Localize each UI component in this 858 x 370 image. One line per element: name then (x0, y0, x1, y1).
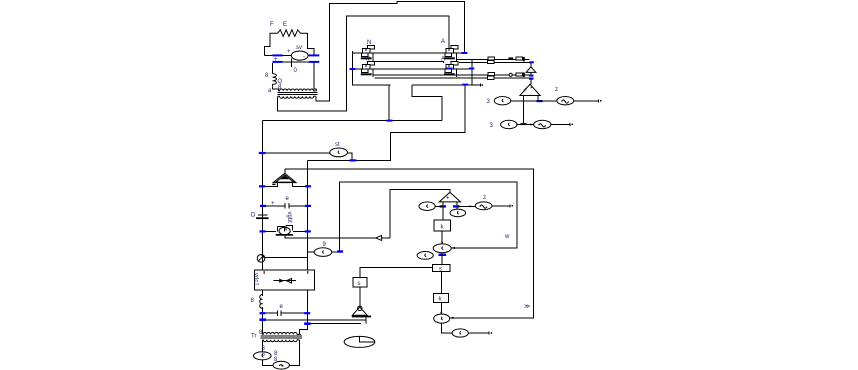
mark inside D (442, 247, 443, 250)
fuse F2a on line2a (488, 73, 495, 76)
VS1 bottom terminal bar (290, 59, 293, 67)
wire sensor up to box S (359, 287, 361, 307)
tick mark in RB1 right (307, 271, 308, 274)
gain box K1 (434, 220, 450, 231)
fuse F1b on line1b (488, 60, 495, 63)
AC source S1 (row1, sine) (557, 97, 574, 105)
inductor L1 (273, 74, 277, 87)
end pin dot (482, 84, 484, 86)
wire bus L6 left (352, 84, 390, 86)
blue node PH right (337, 250, 343, 252)
arrow into D right (452, 247, 455, 250)
wire bus L3 (lower through line) (350, 68, 472, 70)
fuse F1a on line1a (488, 57, 495, 60)
meter ellipse M2 (bottom) (273, 361, 289, 369)
wire T1 secondary left end down (278, 16, 449, 111)
wire sensor base taps (365, 317, 367, 323)
svg-text:E: E (283, 22, 287, 28)
rail B (right vertical) (307, 160, 309, 270)
polarity bar on line1a (508, 57, 513, 59)
arrow inside CB (259, 255, 264, 260)
MOSFET Q2 (bottom-left) (360, 62, 377, 78)
AC source S2 (row2, sine) (534, 120, 551, 128)
arrow mark row2 (531, 123, 534, 125)
arrow mark before C (470, 205, 473, 207)
transformer T1 secondary winding (278, 96, 316, 98)
svg-text:+: + (524, 88, 528, 94)
C2 bottom plate (256, 217, 269, 219)
probe ellipse E (417, 252, 433, 260)
wire row1 to pin (574, 99, 599, 102)
blue node L3 left (350, 68, 356, 70)
transformer T3 secondary (263, 340, 300, 342)
wire source row2 (273, 61, 315, 63)
sine mark inside S1 (562, 100, 569, 103)
SCR T2 (wide triangle) (273, 173, 296, 182)
SECTION: top-left source loop (265, 22, 320, 98)
T4 left leg (442, 202, 444, 220)
blue node left leg row2 (521, 123, 527, 125)
MOSFET Q1 (top-left) (360, 46, 377, 62)
open triangle and bar inside RB1 (286, 278, 291, 283)
fuse F2b on line2b (488, 76, 495, 79)
wire long horizontal y120.6 (263, 120, 442, 122)
svg-text:sv: sv (296, 45, 302, 51)
blue wire row1 left (273, 54, 283, 56)
inner outline of T2 (276, 175, 294, 182)
wire C to end pin (492, 204, 510, 207)
blue wire row1 right (309, 54, 320, 56)
comparator triangle T4 (439, 192, 460, 202)
minus mark left of T2 (272, 184, 275, 185)
mark inside F (441, 317, 442, 320)
sensor triangle T0 (526, 67, 536, 73)
blue node L3 right (469, 68, 475, 70)
wire inductor to transformer primary (273, 87, 279, 89)
SECTION: output filter (374, 57, 536, 80)
wire H2 inner loop (node PH to ellipse D) (340, 182, 517, 252)
wire T0 bottom (530, 72, 532, 74)
svg-text:Tr: Tr (251, 334, 256, 340)
AC reference source C (sine) (475, 202, 492, 210)
mark inside PH (323, 250, 324, 253)
T2 apex wire up (284, 169, 286, 173)
svg-text:A: A (441, 39, 445, 45)
SECTION: feedback wires (285, 169, 534, 318)
probe ellipse A (419, 202, 435, 211)
wire PI1 to PI2 (440, 272, 442, 294)
capacitor C3 (263, 310, 308, 316)
svg-text:vdc1: vdc1 (253, 273, 259, 286)
svg-text:D: D (251, 213, 256, 219)
polarized capacitor C2 on rail A (258, 214, 268, 216)
diode symbol inside RB1 (274, 280, 296, 282)
blue wire C1 right (305, 205, 311, 207)
blue wire rail B y186 (305, 185, 311, 187)
wire T1 secondary right end down (316, 2, 465, 101)
wire CS1 left to rail A (263, 152, 330, 154)
switch S3 (mosfet-like blob) (263, 225, 308, 235)
junction blue y120.6 (387, 120, 393, 122)
wire K1 to sum D (441, 231, 443, 244)
solid arrow inside RB1 (279, 279, 284, 283)
plus mark in RB1 (264, 271, 265, 274)
rail A (left vertical) (262, 121, 264, 270)
svg-text:N: N (366, 57, 370, 63)
sum ellipse F (434, 314, 450, 323)
SECTION: control chain (417, 192, 513, 337)
box S (sensor gain) (353, 278, 367, 288)
blue wire row2 right (309, 61, 320, 63)
wire CS1 right down to H0 (347, 153, 351, 161)
inductor Lf1 on line1a (516, 57, 523, 60)
rail A lower part (262, 290, 264, 334)
blue wire row2 left (273, 61, 283, 63)
wire left rail to inductor (272, 63, 274, 74)
wire source row1 (265, 54, 315, 56)
T4 right leg (456, 202, 458, 210)
wire bus L2 (374, 62, 443, 64)
blue wire rail A y186 (259, 185, 265, 187)
blue wire C3 right (304, 312, 310, 314)
blue node right leg (537, 100, 543, 102)
inductor Lf2 on line2a (516, 73, 523, 76)
dot mark inside T1 (531, 87, 533, 88)
rail B lower part (300, 290, 308, 334)
probe ellipse P2 (row2 left) (501, 120, 517, 128)
svg-text:+: + (287, 49, 291, 55)
blue node T4 left (440, 205, 447, 207)
wire arrow to x390 (382, 237, 390, 239)
wire T0 top (530, 62, 532, 67)
wire output line 1a (y59) (457, 58, 530, 60)
scope ellipse SC1 (344, 336, 375, 347)
svg-text:s: s (358, 281, 361, 287)
wire row2 (517, 124, 534, 126)
rectifier box RB1 (254, 270, 314, 290)
mark inside M1 (262, 354, 263, 357)
wire right vertical x471.8 (471, 59, 473, 85)
transformer T1 primary winding (279, 89, 317, 91)
blue node L1 right (462, 52, 468, 54)
transformer T3 primary (262, 332, 301, 334)
blue node T4 right (453, 205, 460, 207)
wire PI2 to sum F (440, 303, 442, 315)
svg-text:N: N (367, 40, 371, 46)
wire T4 node to ellipse C (457, 205, 475, 207)
transformer T1 core bars (278, 93, 318, 95)
wire CB to rail B (265, 257, 308, 259)
wire row1 (511, 100, 557, 102)
wire bus L6 right with end pin (412, 84, 481, 87)
blue node L3 mid (447, 68, 453, 70)
wire source right rail down to transformer (314, 62, 316, 89)
svg-text:vgbt: vgbt (286, 212, 292, 224)
T2 left foot (263, 183, 278, 187)
wire H3 (gate line to comparator apex) (390, 189, 450, 238)
end pin dot C (512, 205, 514, 207)
probe ellipse PH (314, 248, 332, 257)
wire zigzag DC- to feedback rail (412, 85, 442, 121)
blue node line1 (529, 61, 534, 63)
arrow into D (441, 242, 443, 245)
blue node line2a (529, 75, 534, 77)
svg-text:F: F (270, 22, 274, 28)
blue node line2b (529, 78, 534, 80)
wire DC- to rail B (via x464.8) (308, 85, 465, 160)
SECTION: left chain (251, 121, 433, 370)
gate arrow (open triangle) (376, 235, 382, 240)
wire G to end pin (468, 332, 489, 335)
svg-text:z: z (483, 195, 486, 201)
probe ellipse B (450, 209, 466, 217)
capacitor C1 (263, 203, 308, 209)
wire bus L1 (top through line) (352, 52, 464, 54)
AC source VS1 (291, 51, 308, 60)
wire PH right to node (332, 251, 340, 253)
wire output line 2a (y74.6) (374, 74, 530, 76)
wire tap A to sensor (y319.8) (263, 319, 366, 321)
mark inside E (425, 254, 426, 257)
arrow into F right (450, 317, 453, 320)
svg-text:+: + (274, 57, 278, 63)
row2 end pin dot (572, 124, 574, 126)
probe ellipse P1 (row1 left) (494, 97, 510, 105)
SECTION: transformer hooks (278, 2, 465, 111)
svg-text:st: st (335, 142, 340, 148)
blue wire C3 left (260, 312, 266, 314)
small circle on line2a (509, 73, 512, 76)
wire T1 right leg (537, 96, 539, 102)
blue wire y319.8 (260, 318, 266, 321)
PI box PI1 (433, 265, 450, 272)
mark inside M2 (279, 365, 283, 367)
end pin dot G (491, 332, 493, 334)
wire A to T4 leg (435, 205, 443, 207)
svg-text:≫: ≫ (524, 304, 530, 310)
blue wire y323.7 (304, 322, 310, 325)
op-amp triangle T1 (520, 84, 540, 95)
mark inside G (460, 331, 461, 334)
mark inside P1 (502, 99, 503, 102)
wire D to PI1 (441, 253, 443, 265)
current probe circle CB (257, 254, 265, 262)
blue wire S3 right (305, 230, 311, 232)
blue wire C1 left (260, 205, 266, 207)
wire S3 gate down to arrow line (285, 236, 375, 238)
secondary loop left (263, 340, 300, 366)
inductor L2 on rail A (260, 295, 263, 309)
svg-text:A: A (441, 57, 445, 63)
probe ellipse G (452, 329, 468, 337)
MOSFET Q3 (top-right) (443, 46, 460, 62)
PI box PI2 (434, 293, 449, 302)
current sensor ellipse CS1 (330, 148, 348, 157)
svg-text:w: w (504, 234, 510, 240)
T2 right foot (293, 183, 308, 187)
arrow into F (440, 312, 442, 315)
mark inside B (457, 211, 458, 214)
wire R1 left leg (265, 33, 270, 55)
wire bridge left rail (352, 51, 389, 121)
sum ellipse D (433, 244, 451, 253)
blue node below D (439, 254, 447, 256)
wire output line 1b (y62.2) (459, 61, 534, 63)
MOSFET Q4 (bottom-right) (443, 62, 460, 78)
wire H0 (308, 159, 391, 161)
wire PH left to rail B (308, 251, 315, 253)
SECTION: right sensors (487, 78, 602, 129)
svg-text:+: + (271, 201, 275, 207)
wire F down to G (442, 323, 452, 333)
transformer T3 core bars (261, 336, 303, 338)
wire H1 outer loop (SCR apex to ellipse F) (285, 169, 534, 318)
wire box S up and right to PI1 (360, 267, 433, 277)
blue wire S3 left (260, 230, 266, 232)
svg-text:-: - (303, 54, 305, 60)
wire T1 left leg (522, 96, 524, 124)
blue node H0 (350, 159, 357, 161)
capacitor bar on line1a (523, 57, 525, 62)
filled gate triangle inside T2 (280, 176, 289, 180)
row1 end pin dot (600, 100, 602, 102)
wire tap B to sensor (y323.7) (308, 323, 362, 325)
wire filter node to T1 apex (530, 78, 532, 85)
sine mark inside S2 (539, 124, 546, 127)
blue wire at rail A y153 (259, 152, 266, 154)
wire row2 to pin (551, 123, 570, 126)
wire R1 right leg (308, 33, 315, 55)
line inside SC1 (360, 336, 375, 342)
svg-text:+: + (446, 196, 450, 202)
blue node DC- (462, 84, 468, 86)
capacitor bar on line2a (523, 73, 525, 78)
mark inside A (427, 205, 428, 208)
sine mark inside C (480, 205, 487, 208)
wire output line 2b (y78.4) (374, 77, 533, 79)
mark inside CS1 (338, 151, 339, 154)
voltage sensor VS (small triangle w/ base) (352, 306, 371, 317)
resistor R1 (270, 30, 308, 37)
mark inside P2 (508, 123, 509, 126)
svg-text:z: z (555, 87, 558, 93)
meter ellipse M1 (left) (253, 352, 271, 360)
